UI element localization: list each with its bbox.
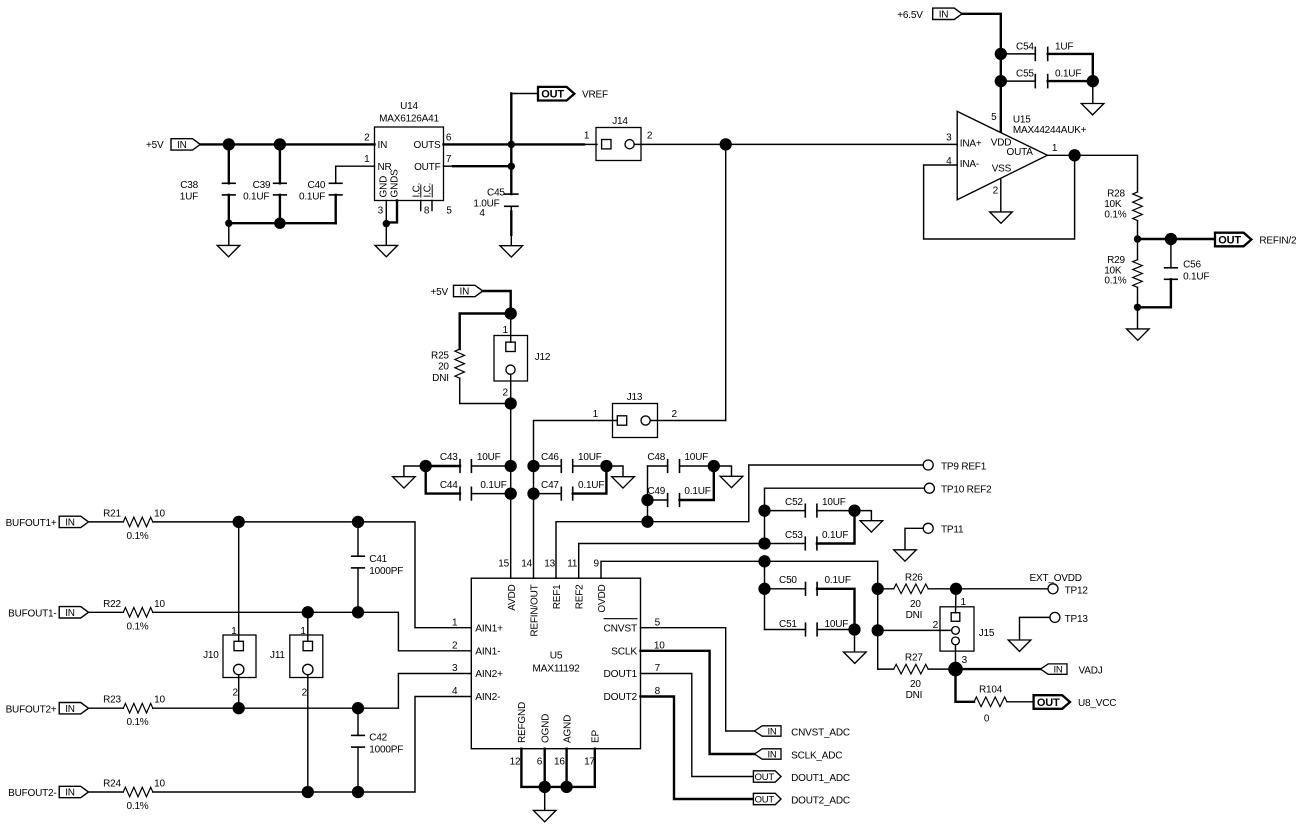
port OUT DOUT2_ADC (753, 793, 849, 806)
resistor R28 10K 0.1% (1104, 188, 1142, 239)
svg-text:IN: IN (1053, 665, 1062, 676)
junction (527, 487, 539, 499)
junction (560, 781, 572, 793)
capacitor C41 1000PF (352, 522, 404, 612)
svg-text:R26: R26 (905, 573, 923, 584)
wire J13 pin1 to REFIN/OUT (534, 421, 618, 579)
junction (708, 460, 720, 472)
junction (1068, 149, 1080, 161)
junction (641, 494, 653, 506)
svg-text:SCLK_ADC: SCLK_ADC (791, 750, 842, 761)
capacitor C42 1000PF (352, 708, 404, 792)
svg-text:C55: C55 (1016, 69, 1034, 80)
svg-text:OUT: OUT (755, 794, 775, 805)
svg-text:3: 3 (946, 132, 952, 143)
junction (352, 516, 364, 528)
svg-text:10UF: 10UF (477, 452, 501, 463)
svg-text:TP9 REF1: TP9 REF1 (941, 461, 987, 472)
junction (848, 623, 860, 635)
svg-text:OUT: OUT (541, 89, 564, 101)
svg-text:REF1: REF1 (552, 584, 563, 609)
svg-text:C53: C53 (785, 530, 803, 541)
wire VDD riser (1000, 54, 1002, 133)
ground (U15 VSS) (990, 212, 1013, 223)
wire J13 riser (725, 144, 727, 420)
port IN SCLK_ADC (755, 749, 843, 762)
svg-text:C54: C54 (1016, 41, 1034, 52)
svg-text:OGND: OGND (541, 714, 552, 743)
port IN BUFOUT2+ (6, 703, 89, 716)
port OUT REFIN/2 (1215, 233, 1297, 247)
wire VREF branch (511, 94, 538, 195)
wire BUFOUT2- row (153, 697, 472, 793)
junction (1134, 235, 1141, 242)
ground (C45) (500, 206, 523, 257)
svg-text:U14: U14 (400, 101, 418, 112)
svg-text:C40: C40 (307, 180, 325, 191)
svg-text:OUTF: OUTF (414, 162, 441, 173)
junction (1134, 304, 1141, 311)
port IN +6.5V (897, 8, 962, 21)
svg-text:J14: J14 (612, 116, 628, 127)
resistor R24 10 0.1% (90, 779, 166, 813)
svg-text:0.1%: 0.1% (127, 621, 149, 632)
svg-text:0.1UF: 0.1UF (243, 192, 269, 203)
svg-text:C39: C39 (253, 180, 271, 191)
svg-text:R23: R23 (103, 695, 121, 706)
svg-text:IN: IN (65, 788, 75, 799)
svg-text:GNDS: GNDS (389, 169, 400, 198)
junction (995, 75, 1007, 87)
test point TP11 (923, 523, 964, 535)
port OUT VREF (538, 87, 608, 101)
svg-text:0.1%: 0.1% (127, 801, 149, 812)
svg-text:R28: R28 (1107, 188, 1125, 199)
svg-text:10: 10 (154, 779, 165, 790)
junction (948, 662, 963, 677)
svg-text:AIN2+: AIN2+ (475, 669, 503, 680)
svg-text:C52: C52 (785, 497, 803, 508)
wire U5 DOUT2 net (641, 697, 754, 800)
svg-text:1UF: 1UF (1055, 41, 1073, 52)
junction (233, 516, 245, 528)
svg-text:1: 1 (961, 597, 967, 608)
svg-text:10UF: 10UF (578, 452, 602, 463)
svg-text:20: 20 (910, 679, 921, 690)
resistor R22 10 0.1% (90, 599, 166, 633)
svg-text:OUT: OUT (755, 772, 775, 783)
junction node J13 riser (720, 138, 732, 150)
wire U15 INA- feedback (924, 155, 1075, 239)
svg-text:EXT_OVDD: EXT_OVDD (1030, 573, 1082, 584)
svg-text:C51: C51 (779, 619, 797, 630)
svg-text:+5V: +5V (431, 287, 449, 298)
svg-text:+6.5V: +6.5V (897, 10, 923, 21)
svg-text:3: 3 (378, 206, 384, 217)
svg-text:MAX11192: MAX11192 (532, 664, 580, 675)
junction (420, 460, 432, 472)
svg-text:0.1UF: 0.1UF (1055, 69, 1081, 80)
svg-text:0.1UF: 0.1UF (822, 530, 848, 541)
svg-text:0.1UF: 0.1UF (825, 575, 851, 586)
svg-text:IN: IN (767, 726, 776, 737)
ground (U5) (533, 787, 556, 822)
junction (383, 220, 390, 227)
junction (872, 624, 884, 636)
svg-text:10: 10 (154, 508, 165, 519)
junction (302, 606, 314, 618)
capacitor C48 10UF (647, 452, 713, 522)
junction (1087, 75, 1099, 87)
wire C50/C51 bus (764, 561, 766, 629)
junction (758, 583, 770, 595)
svg-text:2: 2 (647, 131, 653, 142)
svg-text:14: 14 (521, 558, 532, 569)
svg-text:0.1UF: 0.1UF (684, 486, 710, 497)
capacitor C50 0.1UF (765, 575, 855, 629)
svg-text:1000PF: 1000PF (369, 744, 403, 755)
svg-text:R24: R24 (103, 779, 121, 790)
svg-text:IN: IN (459, 287, 469, 298)
ground (C38 bus) (217, 223, 240, 257)
svg-text:BUFOUT2+: BUFOUT2+ (6, 704, 57, 715)
svg-text:EP: EP (591, 730, 602, 743)
junction (505, 460, 517, 472)
capacitor C47 0.1UF (534, 466, 607, 500)
wire REFIN/2 tap (1138, 238, 1216, 240)
svg-text:REF2: REF2 (575, 584, 586, 609)
svg-text:8: 8 (424, 206, 430, 217)
svg-text:DOUT1: DOUT1 (603, 669, 637, 680)
svg-text:C45: C45 (487, 188, 505, 199)
svg-text:J11: J11 (270, 650, 285, 661)
svg-text:R29: R29 (1107, 255, 1125, 266)
svg-text:IN: IN (378, 140, 388, 151)
capacitor C52 10UF (765, 497, 855, 517)
svg-text:REFIN/OUT: REFIN/OUT (529, 584, 540, 636)
svg-text:TP11: TP11 (941, 525, 964, 536)
junction (505, 397, 517, 409)
svg-text:10UF: 10UF (825, 619, 849, 630)
svg-text:0.1UF: 0.1UF (578, 480, 604, 491)
svg-text:1: 1 (231, 626, 237, 637)
svg-text:13: 13 (544, 558, 555, 569)
junction (352, 702, 364, 714)
svg-text:C50: C50 (779, 575, 797, 586)
svg-text:1: 1 (593, 409, 599, 420)
svg-text:VADJ: VADJ (1079, 665, 1103, 676)
svg-text:C46: C46 (541, 452, 559, 463)
svg-text:20: 20 (910, 599, 921, 610)
wire U5 ground bus (521, 749, 594, 787)
svg-text:2: 2 (364, 132, 370, 143)
port OUT DOUT1_ADC (753, 771, 849, 784)
junction (505, 307, 517, 319)
op-amp U15 MAX44244AUK+ (946, 111, 1087, 199)
junction (302, 786, 314, 798)
resistor R104 0 (974, 685, 1034, 725)
svg-text:VSS: VSS (992, 164, 1012, 175)
wire J13 pin2 (650, 420, 726, 422)
svg-text:J12: J12 (535, 352, 551, 363)
ground (C50/C51) (844, 630, 867, 664)
port IN BUFOUT1- (8, 607, 88, 620)
svg-text:TP13: TP13 (1065, 614, 1089, 625)
svg-text:MAX44244AUK+: MAX44244AUK+ (1013, 125, 1087, 136)
svg-text:9: 9 (594, 558, 600, 569)
svg-text:7: 7 (446, 154, 452, 165)
svg-text:1: 1 (584, 131, 590, 142)
ground (C52/C53) (855, 511, 883, 532)
svg-text:U15: U15 (1013, 115, 1031, 126)
wire NR to C40 (336, 165, 375, 167)
svg-text:2: 2 (302, 688, 308, 699)
svg-text:AIN2-: AIN2- (475, 692, 500, 703)
capacitor C55 (1001, 69, 1093, 88)
ground (C43/C44) (393, 466, 426, 488)
capacitor C38 (180, 144, 235, 223)
resistor R26 20 DNI (878, 573, 956, 621)
svg-text:10: 10 (154, 695, 165, 706)
svg-text:6: 6 (446, 132, 452, 143)
svg-text:OUT: OUT (1037, 697, 1060, 709)
svg-text:7: 7 (655, 663, 661, 674)
resistor R23 10 0.1% (90, 695, 166, 729)
svg-text:2: 2 (452, 641, 458, 652)
resistor R21 10 0.1% (90, 508, 166, 542)
port IN CNVST_ADC (755, 726, 850, 739)
connector J12 (494, 314, 551, 404)
wire R104 feed (956, 669, 975, 702)
wire U15 VSS pin (1000, 179, 1002, 212)
connector J15 (878, 589, 995, 669)
connector J10 (203, 522, 256, 708)
capacitor C40 (299, 166, 342, 223)
test point TP10 (924, 483, 992, 495)
junction (223, 138, 235, 150)
svg-text:C42: C42 (369, 732, 387, 743)
capacitor C51 10UF (765, 619, 855, 636)
node EXT_OVDD label (1030, 573, 1082, 584)
svg-text:4: 4 (479, 208, 485, 219)
wire BUFOUT1- row (153, 612, 472, 651)
svg-text:R25: R25 (431, 351, 449, 362)
svg-text:REFIN/2: REFIN/2 (1259, 236, 1297, 247)
capacitor C43 10UF (426, 452, 511, 472)
wire U14 GND pin (385, 201, 387, 224)
svg-text:IN: IN (767, 749, 776, 760)
svg-text:BUFOUT1-: BUFOUT1- (8, 609, 56, 620)
svg-text:2: 2 (933, 620, 939, 631)
wire +6.5V feed (963, 14, 1001, 54)
svg-text:AIN1+: AIN1+ (475, 623, 503, 634)
junction (758, 504, 770, 516)
resistor R29 10K 0.1% (1104, 239, 1142, 307)
svg-text:GND: GND (378, 176, 389, 198)
svg-text:16: 16 (554, 757, 565, 768)
svg-text:OUTS: OUTS (414, 140, 442, 151)
wire VADJ (956, 668, 1041, 670)
svg-text:R21: R21 (103, 508, 121, 519)
ground (C46/C47) (606, 466, 634, 488)
wire BUFOUT1+ row (153, 522, 472, 628)
svg-text:MAX6126A41: MAX6126A41 (379, 114, 439, 125)
wire +5V to U14 IN (201, 143, 374, 145)
svg-text:REFGND: REFGND (517, 702, 528, 743)
junction (539, 781, 551, 793)
svg-text:0.1%: 0.1% (127, 531, 149, 542)
svg-text:AGND: AGND (562, 715, 573, 743)
svg-text:0.1UF: 0.1UF (299, 192, 325, 203)
capacitor C45 (473, 188, 518, 219)
svg-text:1: 1 (503, 325, 509, 336)
port OUT U8_VCC (1034, 695, 1117, 709)
junction (950, 583, 962, 595)
ground (R29/C56) (1127, 307, 1150, 340)
svg-text:0.1%: 0.1% (1104, 275, 1126, 286)
junction (600, 460, 612, 472)
resistor R27 20 DNI (878, 653, 956, 702)
svg-text:C41: C41 (369, 554, 387, 565)
test point TP12 (1048, 584, 1088, 597)
svg-text:CNVST_ADC: CNVST_ADC (791, 727, 850, 738)
svg-text:4: 4 (452, 686, 458, 697)
test point TP9 (923, 460, 987, 472)
svg-text:0.1%: 0.1% (1104, 209, 1126, 220)
svg-text:R27: R27 (905, 653, 923, 664)
IC U14 MAX6126A41 (364, 101, 452, 217)
svg-text:AVDD: AVDD (507, 585, 518, 611)
svg-text:15: 15 (498, 558, 509, 569)
svg-text:C48: C48 (647, 452, 665, 463)
svg-text:R22: R22 (103, 599, 121, 610)
svg-text:DNI: DNI (432, 373, 449, 384)
svg-text:OVDD: OVDD (597, 585, 608, 613)
svg-text:IN: IN (65, 608, 75, 619)
port IN BUFOUT2- (8, 786, 88, 799)
wire TP10 riser (765, 488, 925, 543)
resistor R25 20 DNI (431, 314, 511, 404)
svg-text:INA+: INA+ (960, 138, 982, 149)
connector J13 (593, 392, 678, 437)
junction (872, 583, 884, 595)
svg-text:C43: C43 (440, 452, 458, 463)
svg-text:5: 5 (655, 617, 661, 628)
junction (848, 504, 860, 516)
svg-text:DNI: DNI (906, 690, 923, 701)
junction (274, 218, 285, 229)
junction (1165, 233, 1177, 245)
svg-text:10UF: 10UF (684, 452, 708, 463)
svg-text:TP12: TP12 (1065, 586, 1089, 597)
svg-text:AIN1-: AIN1- (475, 647, 500, 658)
junction (352, 606, 364, 618)
ground (C54/C55) (1081, 81, 1104, 115)
wire U5 SCLK net (641, 651, 755, 754)
svg-text:INA-: INA- (960, 159, 979, 170)
svg-text:0.1UF: 0.1UF (1183, 271, 1209, 282)
svg-text:2: 2 (503, 387, 509, 398)
svg-text:1: 1 (1052, 143, 1058, 154)
svg-text:DOUT2: DOUT2 (603, 692, 637, 703)
svg-text:11: 11 (567, 558, 578, 569)
wire U14 GNDS pin (386, 201, 397, 223)
wire AVDD riser (510, 404, 512, 579)
svg-text:12: 12 (510, 757, 521, 768)
capacitor C53 0.1UF (765, 511, 855, 550)
port IN +5V (top-left) (146, 139, 200, 152)
capacitor C49 0.1UF (647, 466, 713, 506)
test point TP13 (1050, 612, 1088, 625)
ground (U14) (375, 224, 398, 257)
svg-text:BUFOUT1+: BUFOUT1+ (6, 518, 57, 529)
svg-text:3: 3 (962, 655, 968, 666)
svg-text:1000PF: 1000PF (369, 566, 403, 577)
IC U5 MAX11192 (452, 558, 665, 767)
svg-text:1: 1 (300, 626, 306, 637)
svg-text:5: 5 (446, 206, 452, 217)
svg-text:2: 2 (993, 186, 999, 197)
capacitor C56 (1138, 239, 1210, 307)
wire +5V to J12 (484, 291, 511, 314)
svg-text:C56: C56 (1183, 260, 1201, 271)
junction (995, 48, 1007, 60)
svg-text:J13: J13 (627, 392, 643, 403)
capacitor C46 10UF (534, 452, 607, 472)
junction (527, 460, 539, 472)
svg-text:+5V: +5V (146, 140, 164, 151)
svg-text:J10: J10 (203, 650, 219, 661)
svg-text:0.1%: 0.1% (127, 717, 149, 728)
wire U5 DOUT1 net (641, 674, 754, 777)
svg-text:DNI: DNI (906, 610, 923, 621)
wire REF1 net (556, 465, 923, 578)
port IN +5V (mid) (431, 285, 483, 298)
svg-text:IN: IN (65, 518, 75, 529)
svg-text:BUFOUT2-: BUFOUT2- (8, 788, 56, 799)
svg-text:OUTA: OUTA (1007, 147, 1034, 158)
connector J14 (584, 116, 653, 161)
ground (TP13) (1008, 617, 1050, 651)
svg-text:U5: U5 (550, 651, 563, 662)
svg-text:J15: J15 (979, 628, 995, 639)
svg-text:C38: C38 (180, 180, 198, 191)
svg-text:C44: C44 (440, 480, 458, 491)
svg-text:C47: C47 (541, 480, 559, 491)
svg-text:3: 3 (452, 663, 458, 674)
port IN BUFOUT1+ (6, 516, 89, 529)
svg-text:VREF: VREF (582, 90, 608, 101)
wire BUFOUT2+ row (153, 674, 472, 709)
svg-text:10: 10 (154, 599, 165, 610)
junction (505, 487, 517, 499)
junction (508, 141, 515, 148)
svg-text:10UF: 10UF (822, 497, 846, 508)
wire REF2 net (579, 544, 765, 579)
capacitor C54 (1001, 41, 1093, 81)
svg-text:CNVST: CNVST (603, 623, 637, 634)
svg-text:2: 2 (672, 409, 678, 420)
junction (233, 702, 245, 714)
svg-text:OUT: OUT (1218, 234, 1241, 246)
svg-text:U8_VCC: U8_VCC (1078, 698, 1116, 709)
svg-text:1UF: 1UF (180, 192, 198, 203)
svg-text:DOUT1_ADC: DOUT1_ADC (791, 773, 850, 784)
junction (758, 537, 770, 549)
svg-text:DOUT2_ADC: DOUT2_ADC (791, 795, 850, 806)
svg-text:IN: IN (177, 140, 187, 151)
wire EXT_OVDD (956, 588, 1048, 590)
